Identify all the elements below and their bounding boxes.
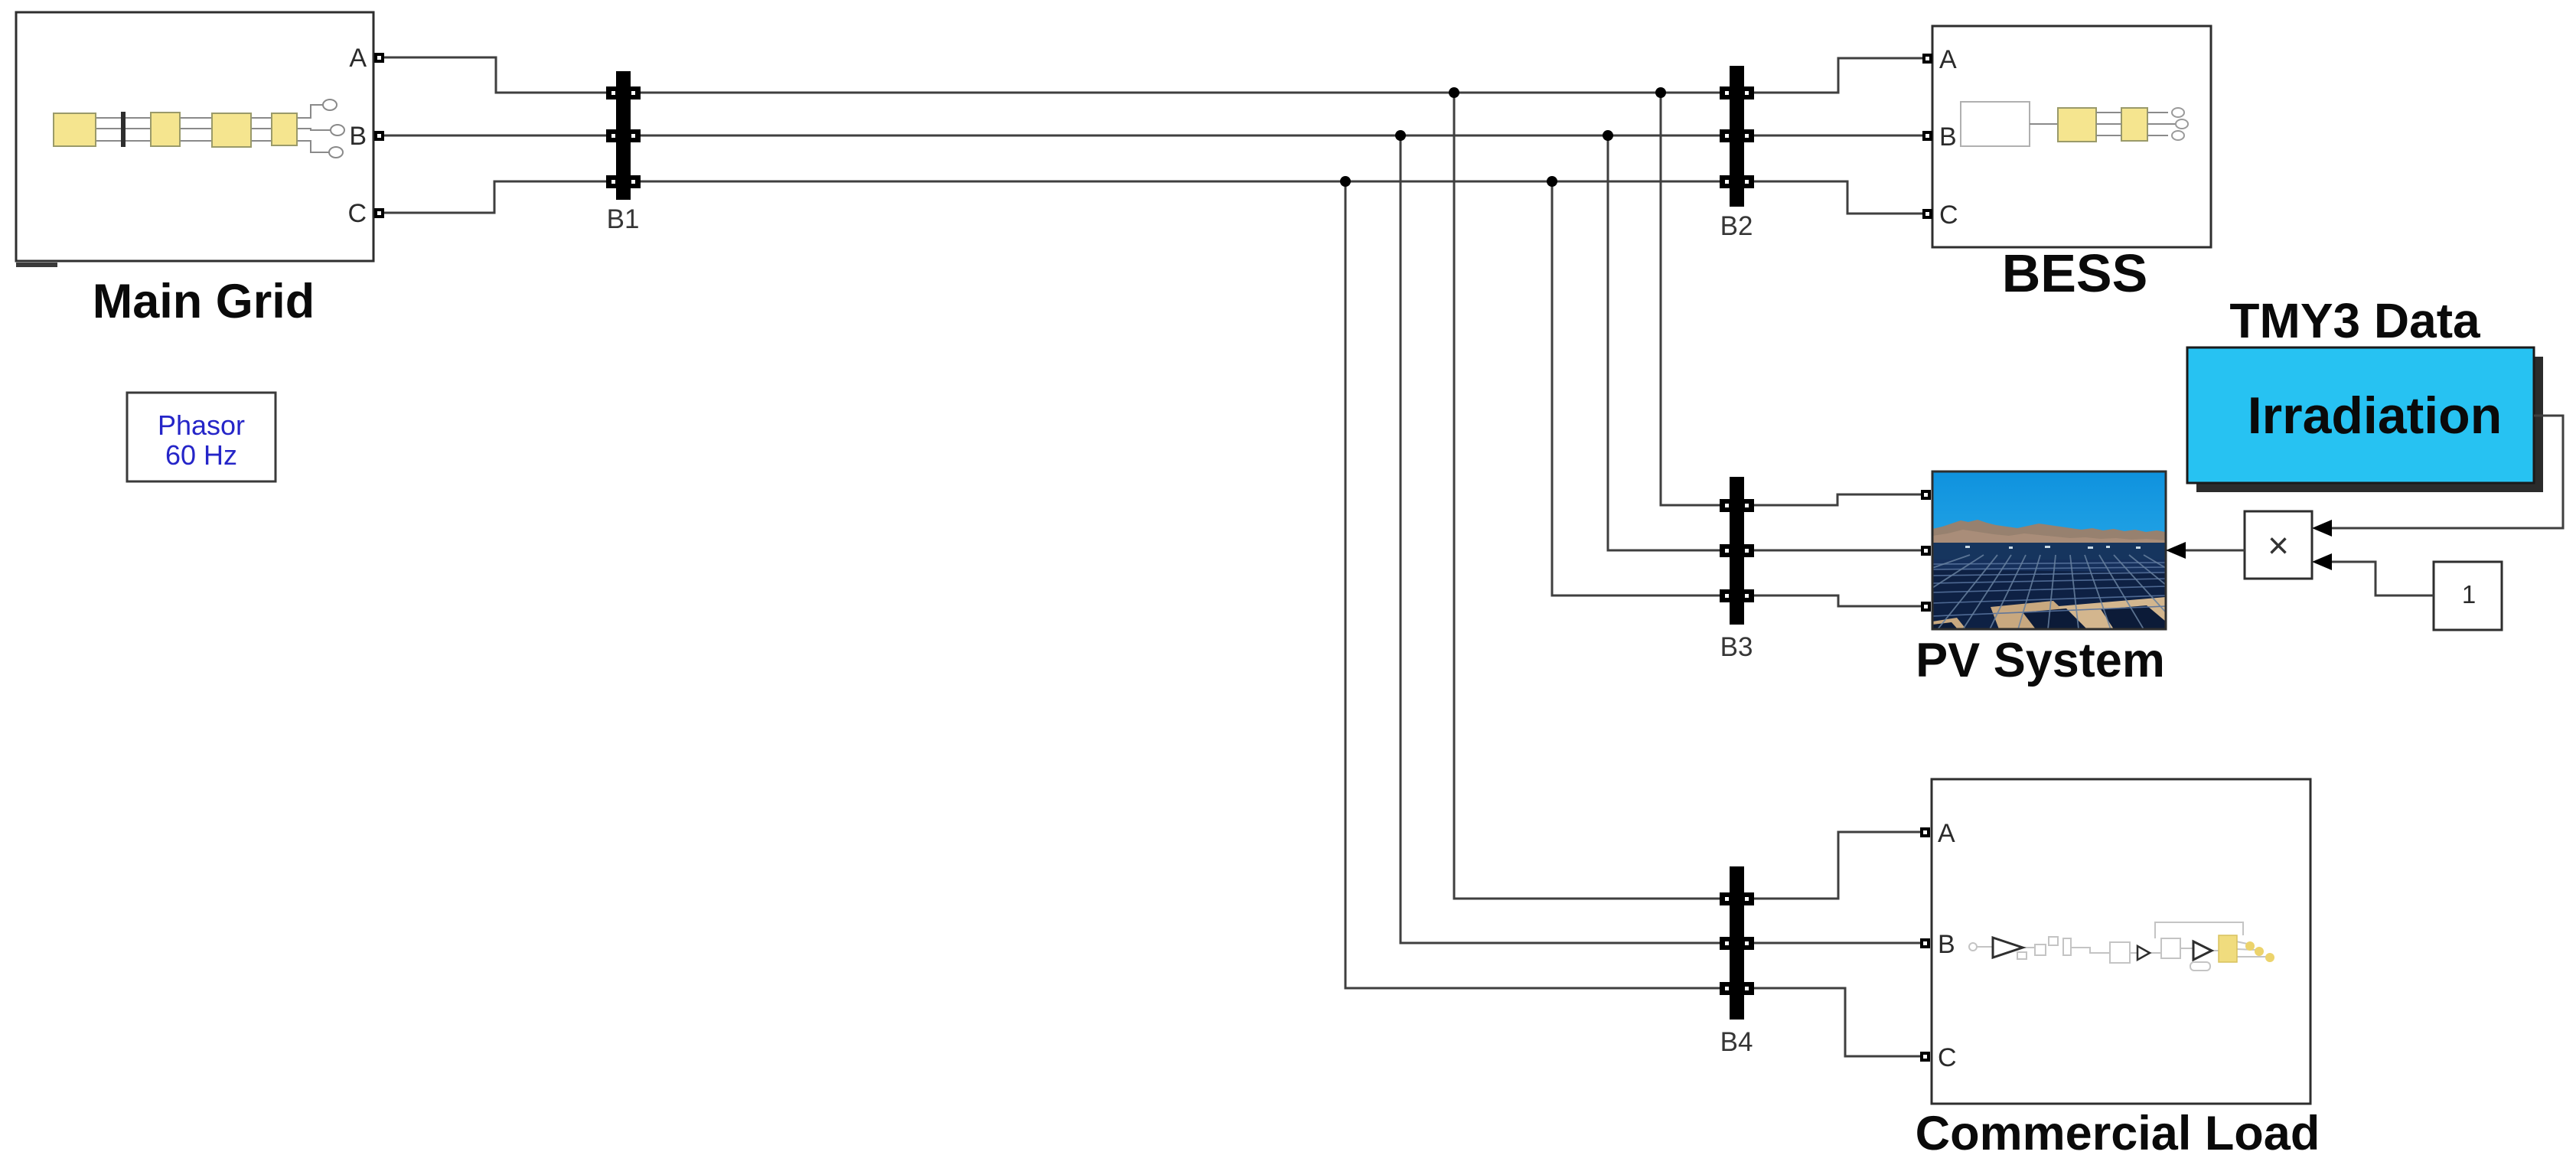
- svg-text:B: B: [1939, 122, 1957, 152]
- svg-text:BESS: BESS: [2002, 243, 2148, 303]
- svg-text:B: B: [1938, 930, 1955, 959]
- wire branch C to B4 / Commercial Load C: [1345, 181, 1920, 1056]
- Main Grid line block: [212, 113, 251, 147]
- Commercial Load yellow dots: [2245, 941, 2274, 962]
- port A of PV: [1921, 490, 1931, 500]
- Commercial Load inner mini-diagram: [1969, 922, 2267, 971]
- wire Irradiation to product top input: [2330, 416, 2563, 528]
- svg-text:B1: B1: [607, 204, 640, 234]
- product block x: [2245, 511, 2312, 579]
- arrowhead into product bottom input: [2312, 553, 2332, 570]
- svg-text:Main Grid: Main Grid: [93, 275, 315, 328]
- svg-text:C: C: [1938, 1043, 1957, 1072]
- Commercial Load gain triangle 3: [2193, 941, 2212, 960]
- block Irradiation (TMY3 data source): [2187, 347, 2543, 492]
- wire branch B to B4 / Commercial Load B: [1400, 135, 1920, 943]
- port A of Main Grid: [374, 53, 384, 63]
- wire branch A to B3 / PV A: [1661, 93, 1922, 505]
- annotation Phasor 60 Hz: [127, 393, 276, 481]
- port A of BESS: [1922, 54, 1932, 64]
- port B of PV: [1921, 546, 1931, 556]
- svg-text:B2: B2: [1720, 211, 1753, 241]
- wire phase A: Main Grid A to B1/B2 to BESS A: [383, 57, 1923, 93]
- svg-text:PV System: PV System: [1916, 634, 2165, 687]
- Main Grid inner three-phase lines: [96, 105, 331, 152]
- svg-text:B: B: [349, 122, 367, 151]
- bus B1: [606, 71, 641, 234]
- constant block 1: [2434, 562, 2502, 630]
- Main Grid transformer block 2: [272, 113, 297, 145]
- bus B4: [1720, 866, 1754, 1057]
- PV solar field: [1932, 560, 2166, 629]
- port A of Commercial Load: [1920, 827, 1930, 837]
- junction dot A-B4 branch: [1449, 87, 1459, 98]
- junction dot A-B3 branch: [1655, 87, 1666, 98]
- junction dot B-B4 branch: [1395, 130, 1406, 141]
- svg-text:C: C: [1939, 201, 1958, 230]
- wire branch A to B4 / Commercial Load A: [1454, 93, 1920, 899]
- port C of Main Grid: [374, 208, 384, 218]
- arrowhead into product top input: [2312, 520, 2332, 537]
- wire constant 1 to product bottom input: [2330, 562, 2434, 595]
- svg-text:A: A: [1938, 819, 1955, 848]
- BESS converter block: [2058, 108, 2096, 142]
- junction dot B-B3 branch: [1603, 130, 1613, 141]
- Main Grid transformer block 1: [151, 113, 180, 146]
- port B of BESS: [1922, 131, 1932, 141]
- wire product output to PV irradiance input: [2183, 550, 2245, 552]
- svg-text:A: A: [1939, 45, 1957, 74]
- bus B2: [1720, 66, 1754, 241]
- BESS transformer block: [2121, 108, 2147, 141]
- wire phase C: Main Grid C to B1/B2 to BESS C: [383, 181, 1923, 214]
- svg-text:B3: B3: [1720, 632, 1753, 662]
- BESS output terminals: [2172, 108, 2188, 140]
- port C of Commercial Load: [1920, 1052, 1930, 1062]
- block Commercial Load: [1916, 779, 2320, 1160]
- port B of Commercial Load: [1920, 938, 1930, 948]
- PV mountains: [1932, 520, 2166, 548]
- svg-text:60 Hz: 60 Hz: [165, 439, 237, 471]
- junction dot C-B4 branch: [1340, 176, 1351, 187]
- svg-text:C: C: [347, 199, 367, 228]
- svg-text:A: A: [349, 44, 367, 73]
- junction dot C-B3 branch: [1547, 176, 1557, 187]
- Commercial Load gain triangle 1: [1993, 938, 2023, 958]
- Commercial Load yellow block: [2219, 935, 2237, 962]
- port C of PV: [1921, 602, 1931, 612]
- svg-text:Phasor: Phasor: [158, 409, 245, 441]
- BESS battery rect: [1961, 102, 2030, 146]
- svg-text:1: 1: [2462, 580, 2476, 608]
- Main Grid source block: [54, 113, 96, 146]
- block Main Grid: [16, 12, 384, 328]
- port C of BESS: [1922, 209, 1932, 219]
- Main Grid breaker tick: [121, 112, 126, 147]
- PV dark lake band: [1932, 543, 2166, 563]
- BESS three-phase links: [2096, 113, 2176, 135]
- PV field sand walkways: [1991, 601, 2083, 629]
- wire branch C to B3 / PV C: [1552, 181, 1922, 606]
- svg-text:Irradiation: Irradiation: [2248, 387, 2503, 445]
- block BESS: [1922, 26, 2211, 303]
- block PV System (photo): [1916, 471, 2166, 687]
- PV dark panel blocks over sand: [2023, 608, 2087, 629]
- svg-text:Commercial Load: Commercial Load: [1916, 1107, 2320, 1160]
- wire phase B: Main Grid B to B1/B2 to BESS B: [383, 135, 1923, 137]
- Main Grid output terminals: [323, 100, 344, 158]
- arrowhead into PV right edge: [2166, 542, 2186, 559]
- svg-text:TMY3 Data: TMY3 Data: [2229, 293, 2480, 348]
- port B of Main Grid: [374, 131, 384, 141]
- Commercial Load gain triangle 2: [2137, 946, 2150, 960]
- wire branch B to B3 / PV B: [1608, 135, 1922, 550]
- bus B3: [1720, 477, 1754, 662]
- PV panel grid lines: [1932, 563, 2166, 616]
- svg-text:B4: B4: [1720, 1027, 1753, 1057]
- svg-text:×: ×: [2268, 526, 2289, 566]
